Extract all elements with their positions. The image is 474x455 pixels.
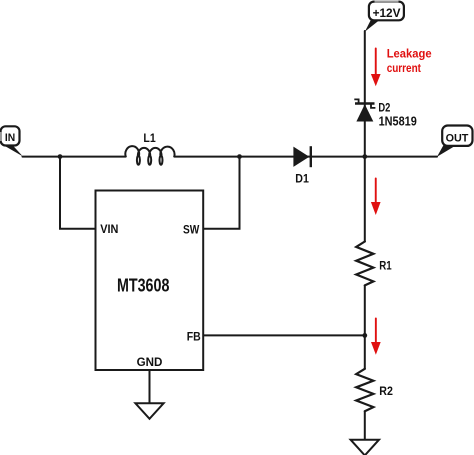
node junction FB [362,333,367,338]
svg-text:D1: D1 [295,172,309,186]
ground (MT3608 GND) [135,403,163,419]
diode D1 [293,146,310,167]
node OUT callout [437,126,473,157]
svg-text:IN: IN [5,132,15,144]
svg-text:Leakage: Leakage [387,47,432,61]
svg-text:VIN: VIN [100,224,118,236]
svg-text:+12V: +12V [373,6,401,20]
wire left vertical to VIN [60,157,96,229]
node junction OUT [362,154,367,159]
svg-text:FB: FB [187,332,201,344]
svg-text:L1: L1 [143,131,156,145]
svg-text:D2: D2 [378,101,390,115]
wire SW vertical [203,157,239,229]
node junction IN-VIN [58,154,63,159]
diode D2 (schottky) [354,99,375,121]
wire main horizontal right [174,156,437,158]
wire main horizontal left [23,156,126,158]
svg-text:1N5819: 1N5819 [379,115,417,129]
inductor L1 [125,146,174,165]
svg-text:current: current [387,61,421,75]
node +12V callout [365,2,404,32]
node IN callout [1,126,23,156]
svg-text:R1: R1 [379,260,392,272]
current arrow 2 [371,178,381,216]
wire R2 to ground [364,411,366,440]
leakage current arrow 1 [371,48,381,87]
svg-text:SW: SW [183,224,199,236]
svg-text:R2: R2 [379,386,393,398]
IC MT3608 body [96,191,204,371]
wire FB horizontal [203,334,365,336]
resistor R1 [356,242,373,286]
wire +12V vertical [364,31,366,242]
svg-text:GND: GND [137,357,163,369]
node junction SW [237,154,242,159]
current arrow 3 [371,318,381,355]
wire R1 to R2 [364,285,366,368]
wire GND vertical [149,370,151,403]
ground (R2 bottom) [351,440,379,455]
svg-text:OUT: OUT [446,133,469,145]
resistor R2 [356,369,373,411]
svg-text:MT3608: MT3608 [117,275,169,295]
